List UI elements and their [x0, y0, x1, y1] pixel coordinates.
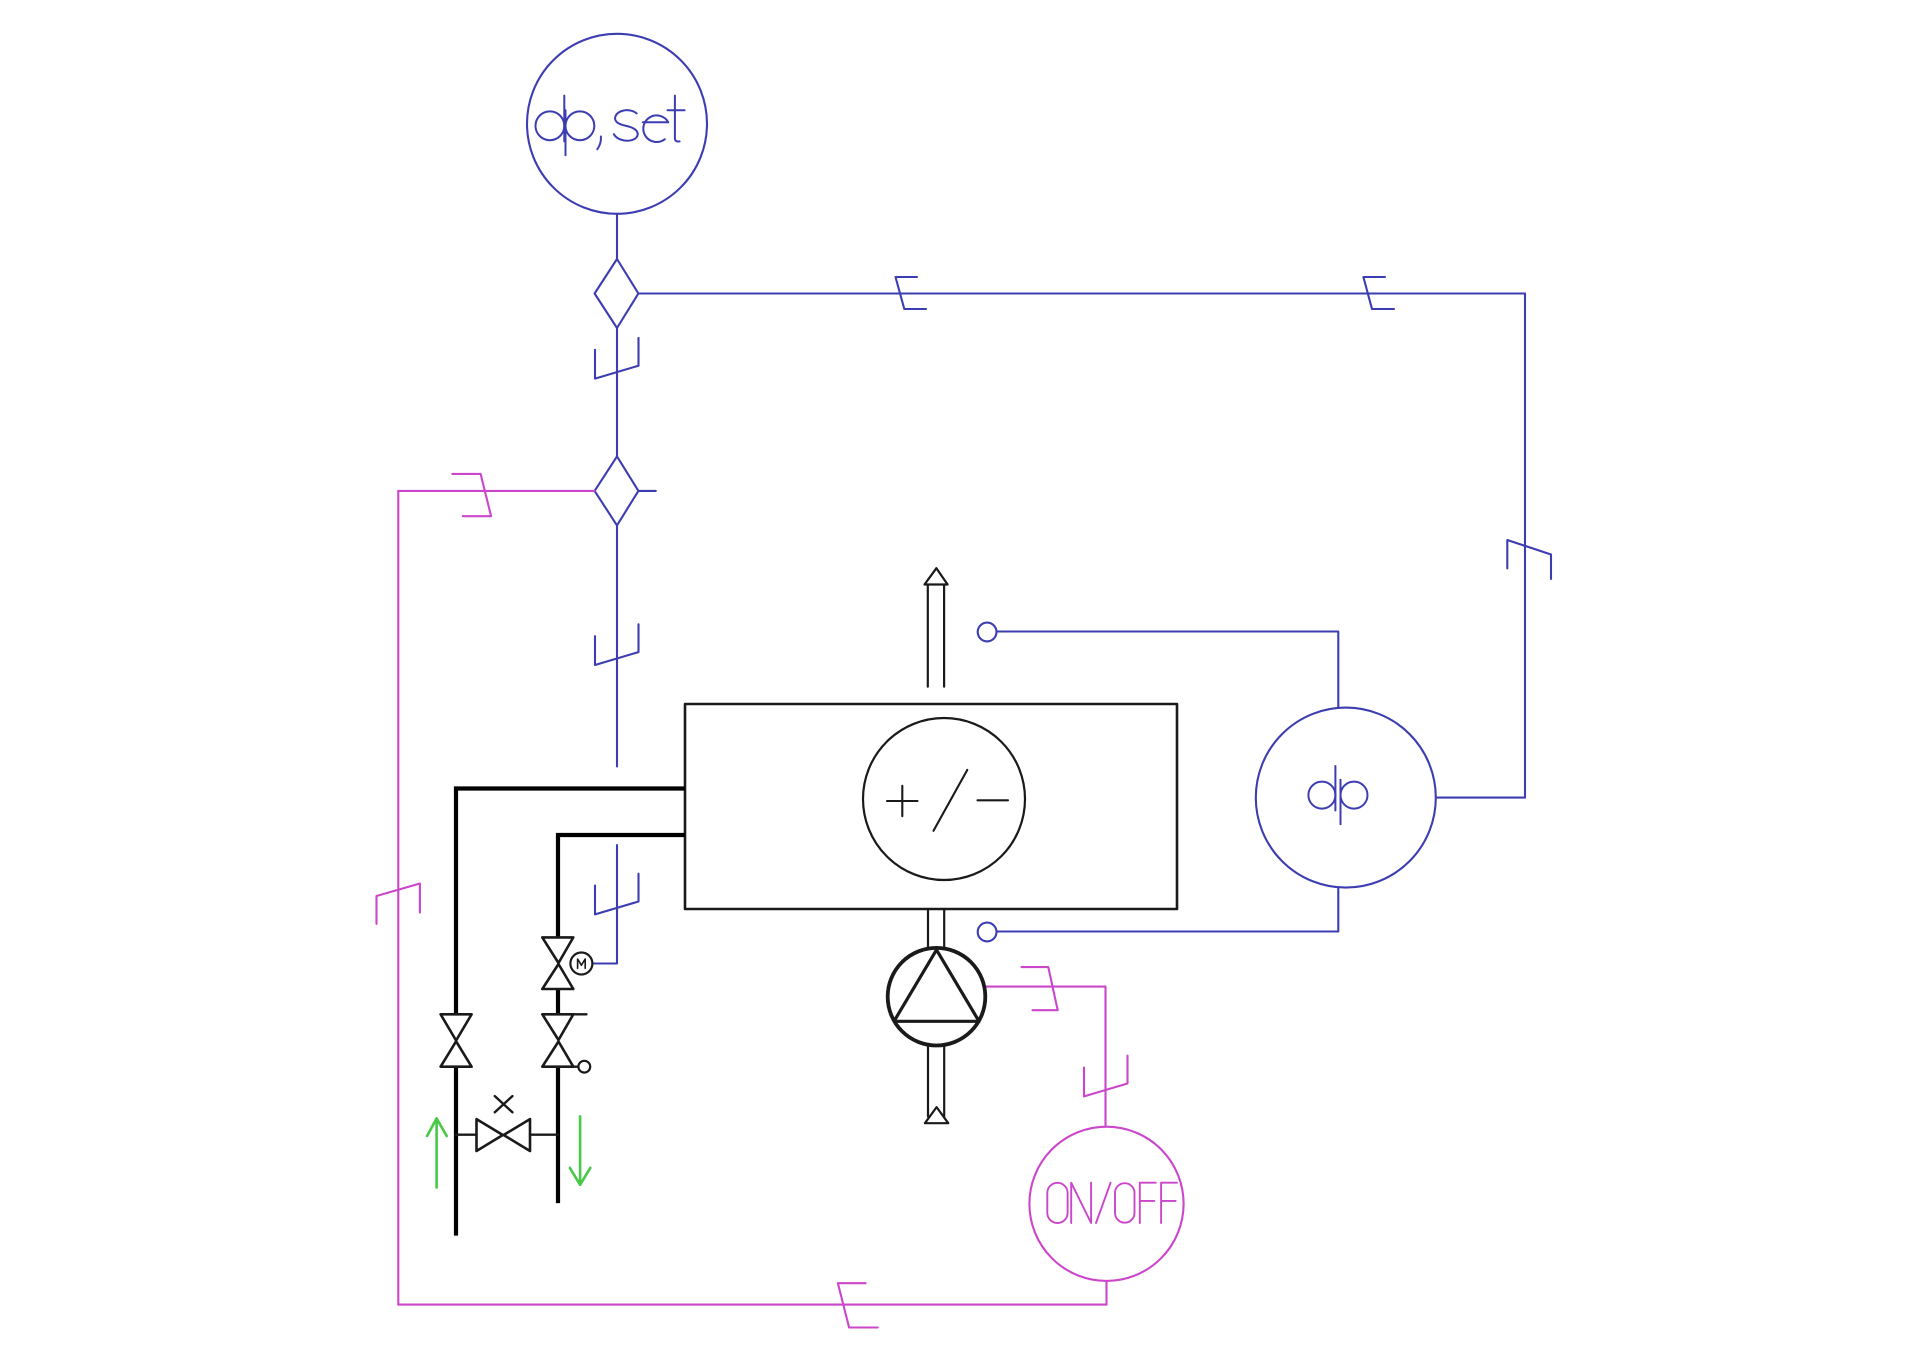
- break symbol B6: [595, 874, 639, 915]
- label minus: [978, 799, 1009, 801]
- break symbol B4 on right vertical: [1507, 540, 1551, 579]
- diamond D2: [595, 456, 639, 525]
- wire magenta bottom horizontal: [398, 1304, 1106, 1306]
- wire ON/OFF circle top up to pump: [984, 987, 1105, 1127]
- controller circle: [863, 718, 1025, 880]
- shutoff valve V1: [441, 1014, 472, 1040]
- label dp,set: [536, 96, 685, 156]
- wire right vertical down to dp transmitter: [1524, 294, 1526, 798]
- label slash: [934, 770, 968, 831]
- diamond D1: [595, 259, 639, 328]
- flow arrow down (return): [570, 1116, 590, 1184]
- ON/OFF function circle: [1029, 1127, 1183, 1281]
- pipe return below valve V3: [556, 1067, 560, 1203]
- closed marking X: [495, 1096, 513, 1112]
- break symbol B8: [452, 474, 491, 516]
- wire D1 to right vertical (top horizontal rail): [638, 292, 1525, 294]
- label dp: [1308, 766, 1367, 824]
- wire dp transmitter top tap: [997, 632, 1339, 708]
- pipe flow line (upper): [456, 789, 685, 1015]
- transmitter circle dp: [1256, 708, 1436, 888]
- supply air arrow shaft (double line up): [928, 585, 944, 687]
- break symbol B1: [595, 338, 639, 379]
- break symbol B3 on top rail: [1363, 277, 1394, 309]
- break symbol B2 on top rail: [896, 277, 927, 309]
- flow arrow up (supply): [427, 1118, 447, 1187]
- motorized control valve V2: [542, 937, 573, 963]
- wire resuming below pipes down to valve motor: [592, 845, 617, 964]
- pipe return between motor valve and valve V3: [556, 989, 560, 1014]
- wire into dp transmitter right side: [1436, 797, 1525, 799]
- pipe flow line below valve V1: [454, 1067, 458, 1236]
- wire D2 down to pipe crossing: [616, 525, 618, 766]
- label M: [578, 959, 586, 968]
- wire ON/OFF circle bottom to rail: [1105, 1281, 1107, 1305]
- wire magenta top horizontal into D2: [398, 490, 594, 492]
- sensor circle dp,set: [527, 34, 707, 214]
- bypass pipe stub left: [456, 1133, 477, 1135]
- label plus: [887, 786, 918, 816]
- break symbol B5: [595, 624, 639, 665]
- pump discharge arrow head: [925, 1107, 948, 1123]
- valve motor actuator circle: [570, 953, 592, 975]
- controller box: [685, 704, 1177, 909]
- wire dp,set to diamond D1: [616, 214, 618, 259]
- stub wire right of D2: [638, 490, 655, 492]
- break symbol B7: [377, 884, 420, 924]
- pump impeller triangle: [894, 950, 979, 1022]
- wire magenta left vertical: [397, 491, 399, 1305]
- wire D1 to diamond D2: [616, 328, 618, 456]
- pipe return line (lower): [558, 835, 685, 937]
- bypass pipe stub right: [530, 1133, 558, 1135]
- wire dp transmitter bottom tap: [997, 888, 1339, 932]
- valve V3 drain stub: [573, 1066, 578, 1068]
- break symbol B9: [838, 1283, 878, 1327]
- bypass valve V4: [477, 1119, 503, 1151]
- label ON/OFF: [1047, 1183, 1177, 1223]
- pump suction double line (box to pump): [928, 909, 944, 948]
- pump circle: [888, 948, 986, 1046]
- terminal circle T2 (low pressure tap): [978, 923, 997, 942]
- pump discharge double line (down): [928, 1046, 944, 1117]
- terminal circle T1 (high pressure tap): [978, 623, 997, 642]
- break symbol B10: [1084, 1056, 1128, 1097]
- valve V3 handle line: [573, 1013, 586, 1015]
- break symbol B11: [1022, 967, 1058, 1010]
- valve V3 drain circle: [578, 1061, 590, 1073]
- supply air arrow head: [925, 568, 948, 584]
- balancing valve V3: [542, 1014, 573, 1040]
